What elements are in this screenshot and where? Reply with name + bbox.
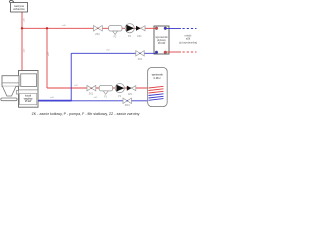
svg-text:25 kW: 25 kW — [25, 101, 32, 103]
svg-text:ZK2: ZK2 — [95, 33, 100, 36]
svg-text:ZK - zawór kotłowy, P - pompa,: ZK - zawór kotłowy, P - pompa, F - filtr… — [32, 112, 140, 116]
svg-text:30 kW: 30 kW — [158, 41, 166, 45]
svg-text:C.W.U.: C.W.U. — [154, 77, 162, 80]
svg-text:(od wymiennika): (od wymiennika) — [179, 42, 197, 45]
svg-text:ZK4: ZK4 — [138, 58, 143, 61]
svg-text:ZK1: ZK1 — [89, 93, 94, 96]
svg-text:wzbiorcze: wzbiorcze — [13, 7, 25, 11]
svg-text:ZM4: ZM4 — [125, 104, 130, 107]
svg-text:ø28: ø28 — [186, 38, 191, 41]
svg-text:ZZ2: ZZ2 — [137, 35, 142, 38]
svg-text:kocioł: kocioł — [25, 96, 31, 98]
svg-text:ZZ1: ZZ1 — [128, 93, 133, 96]
svg-text:węglowy: węglowy — [24, 98, 34, 100]
